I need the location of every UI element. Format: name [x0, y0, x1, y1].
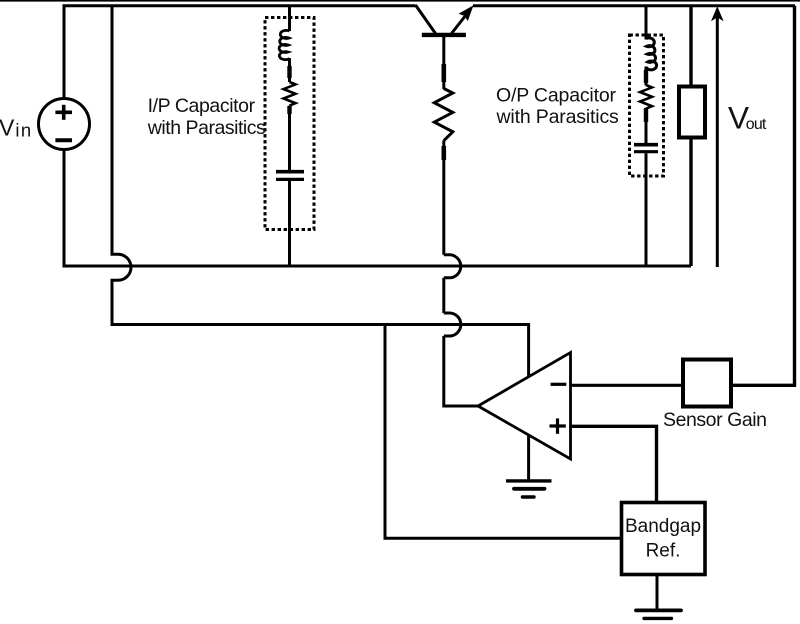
plus input symbol: [550, 418, 566, 433]
plus sign of Vin: [55, 105, 72, 120]
op-amp U1: [478, 353, 571, 460]
wire input cap branch: [288, 6, 291, 31]
resistor R_esr input: [284, 82, 296, 106]
wire base drive with resistor R1: [442, 36, 445, 89]
voltage source V1 (Vin): [39, 99, 90, 150]
minus sign of Vin: [55, 138, 72, 142]
minus input symbol: [551, 383, 567, 386]
wire top rail left segment: [64, 6, 416, 98]
inductor L2 (ESL): [646, 38, 657, 70]
svg-text:V: V: [0, 115, 15, 141]
transistor Q1: [416, 5, 474, 35]
wire hop over bottom rail: [444, 255, 461, 278]
wire output cap branch: [645, 6, 648, 40]
wire feedback tap vertical: [112, 6, 529, 377]
svg-text:Sensor Gain: Sensor Gain: [663, 409, 767, 431]
svg-text:in: in: [15, 120, 31, 141]
wire op-amp plus input from bandgap: [571, 426, 657, 502]
sensor gain box: [683, 360, 731, 407]
Vout arrow: [716, 17, 719, 267]
wire op-amp minus input to sensor gain: [571, 384, 684, 387]
svg-text:Ref.: Ref.: [646, 541, 681, 562]
wire right sense rail: [732, 6, 795, 386]
capacitor C2 plates: [634, 143, 658, 147]
dotted box output capacitor network: [630, 35, 664, 176]
svg-text:with Parasitics: with Parasitics: [496, 106, 620, 128]
svg-text:O/P Capacitor: O/P Capacitor: [496, 85, 617, 107]
wire Vin bottom lead: [64, 150, 691, 267]
resistor R1 zigzag: [434, 89, 453, 141]
node bandgap branch wire: [385, 325, 622, 539]
svg-text:with Parasitics: with Parasitics: [147, 117, 266, 139]
dotted box input capacitor network: [265, 18, 314, 230]
wire top rail right segment: [473, 4, 795, 7]
capacitor C1 plates: [276, 170, 304, 174]
svg-text:I/P Capacitor: I/P Capacitor: [148, 95, 256, 117]
load resistor RL rectangle: [689, 6, 692, 87]
wire hop over feedback line: [444, 313, 461, 336]
bandgap reference box: [622, 503, 706, 575]
ground under bandgap: [636, 575, 681, 619]
svg-text:Bandgap: Bandgap: [625, 516, 701, 537]
svg-text:out: out: [746, 116, 767, 133]
inductor L1 (ESL): [279, 30, 289, 59]
ground under op-amp: [506, 436, 552, 497]
resistor R_esr output: [640, 85, 652, 109]
